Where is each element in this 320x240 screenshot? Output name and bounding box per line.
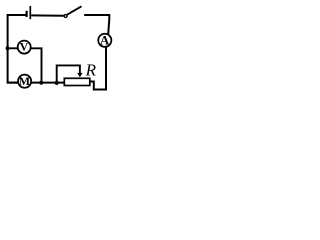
wire: ammeter down, bottom-right corner, jog up to rheostat right end: [90, 47, 106, 89]
wire: left wire to voltmeter: [8, 47, 18, 49]
wire: motor right lead to rheostat: [31, 82, 64, 84]
switch S lever (open): [67, 6, 81, 14]
wire: battery to switch pivot: [31, 14, 64, 16]
battery cell: long thin positive plate: [29, 6, 31, 19]
svg-text:A: A: [100, 33, 110, 48]
svg-text:M: M: [19, 74, 30, 88]
junction dot on left wire (voltmeter tap): [6, 46, 10, 50]
ammeter U-A circle: [98, 34, 111, 47]
junction node: slider branch on motor wire: [55, 81, 59, 85]
wire: slider branch up and over: [57, 65, 80, 83]
wire: left vertical + top-left horizontal + bottom-left to motor: [8, 15, 26, 83]
junction node: voltmeter branch on motor wire: [39, 81, 43, 85]
motor U-M circle: [18, 75, 31, 88]
wire: motor left lead: [8, 82, 18, 84]
slider arrowhead onto rheostat: [77, 73, 82, 78]
battery cell: short thick negative plate: [26, 11, 28, 17]
rheostat R body: [64, 78, 90, 85]
switch S pivot circle: [64, 15, 67, 18]
svg-text:R: R: [85, 61, 97, 80]
svg-text:V: V: [20, 40, 29, 54]
voltmeter U-V circle: [18, 41, 31, 54]
wire: voltmeter right, corner, down to motor wire: [31, 48, 42, 82]
wire: switch to top-right corner and down to ammeter: [84, 15, 109, 34]
